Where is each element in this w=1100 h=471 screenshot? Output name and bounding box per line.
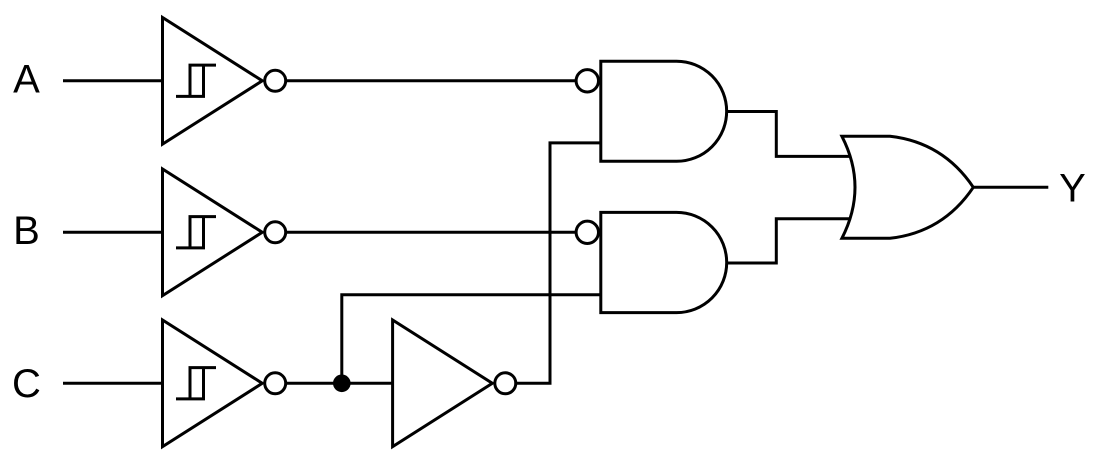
AND gate U6 input bubble [576, 221, 598, 243]
junction node dot [333, 375, 351, 393]
AND gate U4 body [601, 61, 727, 161]
Schmitt U1 hysteresis symbol [176, 65, 216, 96]
wire U1 output to AND U4 bubble [285, 79, 578, 82]
wire OR output to Y [973, 186, 1048, 189]
wire junction up to AND U6 lower input [342, 295, 601, 384]
svg-text:C: C [12, 362, 41, 406]
wire U6 output to OR U7 lower input [727, 219, 852, 263]
wire U3 output to inverter U5 [285, 382, 394, 385]
wire U5 output up to AND U4 lower input [514, 143, 600, 383]
Schmitt inverter U2 triangle [163, 169, 263, 296]
wire U2 output to AND U6 bubble [285, 231, 578, 234]
Schmitt U2 output bubble [265, 222, 286, 243]
OR gate U7 [842, 136, 973, 238]
Schmitt U1 output bubble [265, 70, 286, 91]
wire A to U1 [63, 79, 164, 82]
wire U4 output to OR U7 upper input [727, 112, 852, 157]
svg-text:A: A [13, 58, 40, 102]
AND gate U6 body [601, 212, 727, 312]
Schmitt U2 hysteresis symbol [176, 217, 216, 248]
AND gate U4 input bubble [576, 70, 598, 92]
svg-text:B: B [13, 209, 40, 253]
inverter U5 output bubble [495, 373, 516, 394]
wire B to U2 [63, 231, 164, 234]
Schmitt U3 output bubble [265, 373, 286, 394]
Schmitt inverter U3 triangle [163, 320, 263, 447]
wire C to U3 [63, 382, 164, 385]
inverter U5 triangle [393, 320, 493, 447]
Schmitt inverter U1 triangle [163, 18, 263, 145]
svg-text:Y: Y [1059, 167, 1086, 211]
Schmitt U3 hysteresis symbol [176, 368, 216, 399]
